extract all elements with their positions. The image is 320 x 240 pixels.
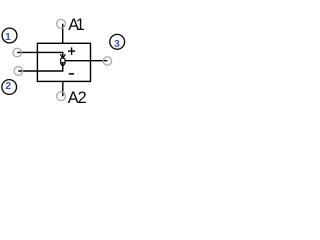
pin number 2 (circled) <box>2 80 17 95</box>
terminal circle pin1 <box>13 48 22 57</box>
arrowhead (current direction, below circle) <box>61 63 66 66</box>
pin number 3 (circled) <box>110 34 125 49</box>
svg-text:2: 2 <box>78 89 87 107</box>
terminal circle pin3 <box>103 57 111 65</box>
source circle (measuring pick-off) <box>60 58 65 63</box>
background <box>0 0 128 128</box>
terminal circle A1 <box>57 19 66 28</box>
terminal circle pin2 <box>14 67 23 76</box>
device body U1 (rectangle outline) <box>37 43 90 81</box>
arrowhead (current direction, above circle) <box>61 55 66 58</box>
wire pin3 (output wire from source circle to terminal 3) <box>63 60 108 62</box>
minus polarity label <box>69 73 74 75</box>
wire A1 (vertical stub from terminal A1 to box top) <box>62 24 64 44</box>
svg-text:1: 1 <box>5 32 11 43</box>
pin number 1 (circled) <box>2 28 17 43</box>
svg-text:3: 3 <box>114 39 120 50</box>
svg-text:1: 1 <box>76 16 85 34</box>
svg-text:2: 2 <box>5 81 11 92</box>
wire pin1 to internal source (with corner down to pin2 wire) <box>17 52 63 71</box>
wire A2 (vertical stub from box bottom to terminal A2) <box>62 81 64 96</box>
plus polarity label <box>68 47 75 54</box>
terminal circle A2 <box>57 92 66 101</box>
